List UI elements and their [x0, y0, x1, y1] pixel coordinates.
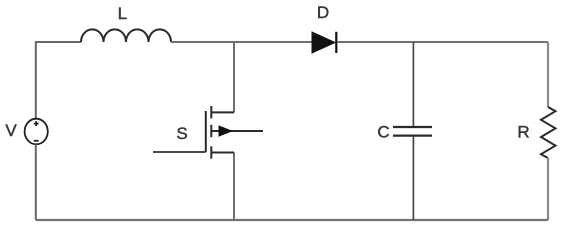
svg-text:V: V [5, 121, 17, 140]
wire MOSFET source branch [233, 153, 235, 221]
svg-text:R: R [517, 123, 529, 142]
wire inductor to diode anode (junction at drain branch) [171, 41, 312, 43]
svg-text:L: L [118, 4, 127, 23]
voltage source V [25, 119, 48, 145]
wire right rail bottom [547, 158, 549, 220]
resistor R [541, 107, 556, 158]
wire capacitor branch top [412, 42, 414, 126]
svg-text:D: D [317, 3, 329, 22]
wire capacitor branch bottom [412, 137, 414, 221]
wire right rail top (to resistor) [547, 42, 549, 107]
transistor S (MOSFET switch) [206, 106, 263, 159]
wire bottom rail [36, 219, 548, 221]
wire top-left segment (left rail top + top wire to inductor) [36, 42, 81, 119]
wire gate lead [153, 151, 206, 153]
wire diode cathode to top-right corner [337, 41, 548, 43]
wire MOSFET drain branch [233, 42, 235, 112]
wire left rail bottom [35, 144, 37, 220]
capacitor C [393, 127, 432, 136]
diode D [312, 32, 336, 53]
svg-text:C: C [377, 123, 389, 142]
inductor L [81, 29, 171, 42]
svg-text:S: S [176, 124, 187, 143]
